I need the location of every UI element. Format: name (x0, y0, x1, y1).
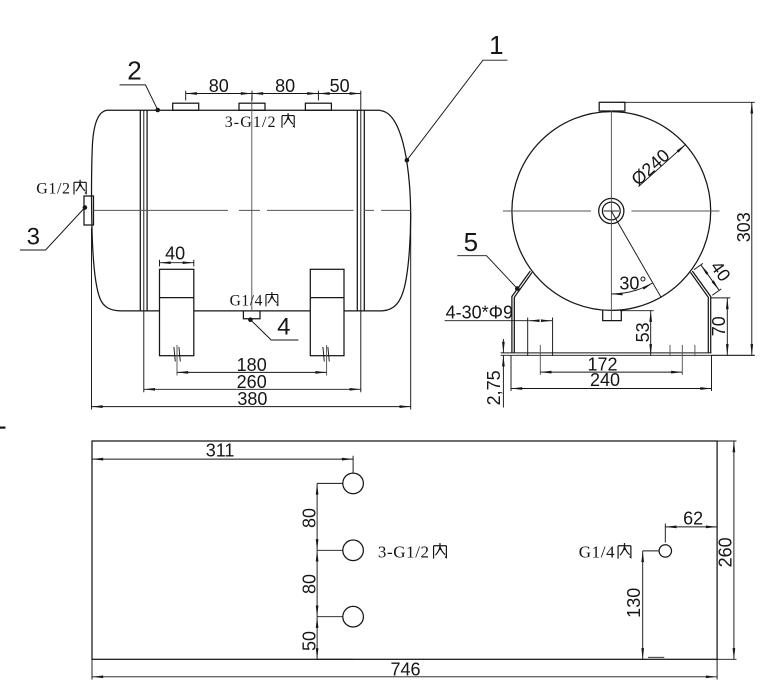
top nozzle 2 (239, 103, 265, 110)
dimension 70 (leg height) (709, 298, 730, 355)
tank shell bottom line (121, 310, 382, 312)
dimension 80 (nozzle2-nozzle3) (252, 76, 318, 96)
dimension 130 (624, 551, 665, 659)
svg-text:53: 53 (633, 322, 653, 342)
svg-text:80: 80 (275, 76, 295, 96)
svg-text:30°: 30° (619, 274, 646, 294)
30 degree arc (611, 274, 653, 295)
diameter leader D240 (627, 144, 685, 189)
right leg slot marks (323, 347, 329, 362)
dimension 311 (92, 441, 353, 660)
svg-text:4: 4 (277, 314, 290, 341)
balloon 3 (20, 205, 87, 250)
balloon 2 (120, 56, 161, 113)
plan port circle middle (343, 540, 364, 561)
svg-text:3-G1/2: 3-G1/2 (225, 114, 277, 131)
svg-text:3-G1/2: 3-G1/2 (378, 543, 430, 562)
svg-text:2: 2 (127, 56, 141, 86)
stray border mark at left edge (0, 427, 6, 429)
base plate (501, 353, 755, 355)
base holes marks (528, 318, 695, 375)
dimension 40 (left leg width) (160, 244, 194, 267)
center port circles (599, 198, 624, 223)
svg-text:40: 40 (165, 244, 185, 264)
dimension 260 (shell length) (144, 372, 361, 392)
svg-text:G1/2: G1/2 (36, 181, 70, 198)
svg-text:130: 130 (624, 588, 644, 618)
top nozzle (end view) (599, 102, 625, 111)
balloon 1 (405, 30, 508, 163)
label G1/2(nei) left (36, 180, 86, 198)
svg-text:1: 1 (489, 30, 503, 60)
svg-text:62: 62 (683, 508, 703, 528)
dimension 260 (plan depth) (716, 441, 737, 659)
tank left head (92, 110, 121, 311)
svg-text:2,75: 2,75 (484, 370, 504, 405)
right leg strut (end view) (691, 271, 711, 353)
horizontal centerline (94, 209, 411, 211)
dimension 80 (nozzle1-nozzle2) (186, 76, 319, 100)
dimension 2,75 (plate thickness) (484, 339, 504, 408)
30 degree line (611, 211, 661, 297)
label 4-30*D9 with mini dimension (445, 302, 552, 322)
horizontal centerline (end view) (503, 210, 720, 212)
tank shell top line (107, 109, 381, 111)
left leg slot marks (174, 347, 180, 362)
svg-text:70: 70 (709, 316, 729, 336)
right weld seam (357, 110, 364, 311)
top nozzle 1 (173, 103, 199, 110)
svg-text:3: 3 (27, 224, 40, 251)
label 3-G1/2(nei) top (225, 113, 295, 131)
dimension chain 80/80/50 vertical (300, 483, 320, 659)
dimension 50 (nozzle3-shell end) (318, 76, 360, 96)
port stub lines (317, 483, 659, 616)
right leg (side view) (310, 269, 344, 355)
dimension 180 (leg centers) (177, 345, 327, 376)
dimension 303 (overall height) (620, 102, 755, 355)
dimension 62 (665, 508, 717, 542)
plan port circle bottom (343, 606, 364, 627)
svg-text:50: 50 (300, 631, 320, 651)
left leg (side view) (160, 269, 194, 355)
svg-text:5: 5 (464, 227, 478, 257)
bottom port G1/4 (243, 311, 260, 319)
svg-text:303: 303 (734, 212, 754, 242)
dimension 746 (plan length) (92, 659, 717, 679)
label G1/4(nei) bottom (230, 292, 278, 309)
top nozzle 3 (305, 103, 331, 110)
svg-text:380: 380 (237, 389, 267, 409)
plan outline (92, 441, 717, 659)
label 3-G1/2(nei) plan (378, 543, 446, 562)
vertical centerline (251, 97, 253, 312)
svg-text:G1/4: G1/4 (230, 292, 263, 309)
vertical centerline (end view) (610, 111, 612, 320)
dimension 380 (overall length) (92, 213, 411, 410)
svg-text:80: 80 (209, 76, 229, 96)
svg-text:G1/4: G1/4 (579, 543, 615, 562)
end view shell circle (512, 112, 711, 311)
svg-text:4-30*Φ9: 4-30*Φ9 (446, 302, 513, 322)
left leg strut (end view) (512, 271, 532, 353)
svg-text:50: 50 (330, 76, 350, 96)
label G1/4(nei) plan (579, 543, 631, 562)
svg-text:240: 240 (590, 370, 620, 390)
left weld seam (140, 110, 147, 311)
plan port circle G1/4 (659, 545, 671, 557)
svg-text:80: 80 (300, 574, 320, 594)
svg-text:260: 260 (716, 537, 736, 567)
side port G1/2 (84, 196, 94, 225)
center cross line (604, 210, 620, 212)
dimension 40 (strut width) (694, 257, 735, 295)
svg-text:80: 80 (300, 508, 320, 528)
right weld centerline / extension for dims 50 and 260 (360, 91, 362, 393)
bottom port (end view) (603, 310, 622, 320)
dimension 172 (540, 355, 682, 375)
balloon 5 (457, 227, 519, 291)
plan port circle top (343, 473, 364, 494)
svg-text:311: 311 (206, 441, 235, 461)
dimension 53 (620, 311, 654, 356)
svg-text:746: 746 (390, 660, 420, 680)
balloon 4 (248, 314, 298, 341)
tank right head (381, 111, 411, 311)
dimension 240 (base width) (511, 355, 712, 391)
left weld centerline / extension of dim 260 (143, 110, 145, 392)
